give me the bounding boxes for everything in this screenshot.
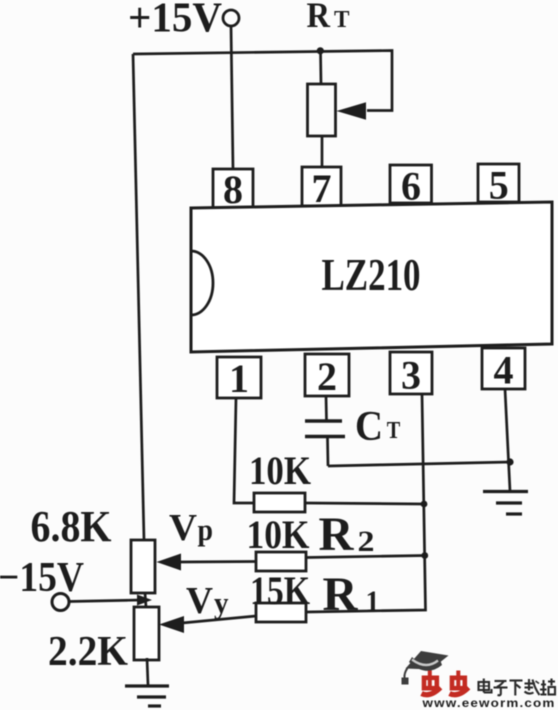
svg-text:3: 3 [401, 353, 421, 398]
svg-text:www.eeworm.com: www.eeworm.com [421, 698, 555, 710]
svg-text:1: 1 [229, 356, 249, 401]
svg-text:10K: 10K [247, 512, 310, 557]
svg-text:8: 8 [223, 167, 243, 212]
svg-text:R: R [319, 508, 355, 561]
svg-text:V: V [186, 580, 214, 622]
svg-text:6: 6 [401, 164, 421, 209]
svg-text:p: p [198, 512, 214, 547]
svg-text:7: 7 [312, 166, 332, 211]
svg-text:1: 1 [366, 585, 380, 618]
svg-text:−15V: −15V [0, 555, 84, 601]
svg-text:y: y [214, 585, 229, 620]
svg-text:R: R [323, 568, 359, 621]
svg-text:5: 5 [489, 163, 509, 208]
svg-text:T: T [387, 418, 401, 444]
svg-text:2: 2 [317, 354, 337, 399]
svg-text:LZ210: LZ210 [322, 250, 421, 300]
svg-text:V: V [169, 507, 198, 549]
svg-text:+15V: +15V [128, 0, 222, 42]
svg-text:C: C [355, 404, 383, 450]
svg-text:T: T [334, 7, 350, 33]
svg-text:2: 2 [358, 525, 375, 558]
svg-text:6.8K: 6.8K [31, 502, 112, 551]
svg-text:2.2K: 2.2K [48, 629, 128, 675]
svg-text:10K: 10K [249, 448, 311, 493]
svg-text:R: R [307, 0, 331, 35]
svg-text:15K: 15K [250, 568, 310, 613]
svg-text:4: 4 [494, 348, 514, 393]
